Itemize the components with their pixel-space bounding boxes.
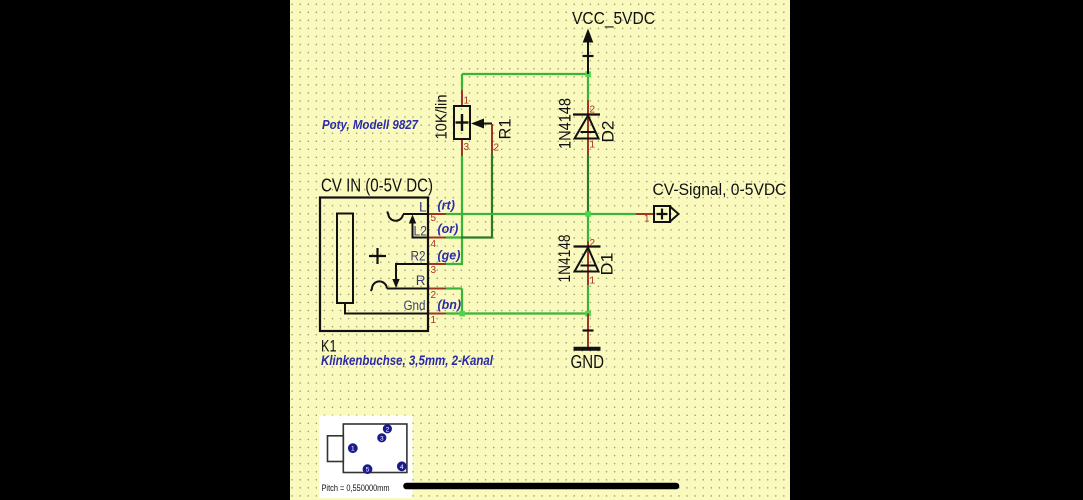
svg-text:Gnd: Gnd bbox=[404, 298, 426, 313]
power symbol VCC arrow bbox=[583, 29, 594, 43]
scale bar bbox=[407, 483, 677, 490]
wire: R2 row green bbox=[446, 263, 463, 265]
power symbol VCC plus bbox=[583, 55, 594, 57]
svg-text:VCC_5VDC: VCC_5VDC bbox=[572, 8, 655, 28]
wire: Gnd row horizontal bbox=[446, 312, 588, 314]
potentiometer R1 body bbox=[454, 106, 470, 139]
svg-text:D1: D1 bbox=[598, 253, 617, 276]
svg-text:Poty, Modell 9827: Poty, Modell 9827 bbox=[322, 117, 419, 132]
svg-text:4: 4 bbox=[400, 464, 404, 471]
svg-text:1: 1 bbox=[351, 446, 355, 453]
junction dot Gnd row right bbox=[585, 311, 591, 317]
wire: L row signal horizontal bbox=[446, 213, 636, 215]
svg-text:3: 3 bbox=[431, 265, 437, 276]
svg-text:10K/lin: 10K/lin bbox=[434, 95, 451, 140]
wire: VCC top horizontal bbox=[462, 73, 588, 75]
output terminal box bbox=[654, 206, 670, 222]
wire: L2 row green bbox=[446, 236, 463, 238]
pin stub R1 pin2 bbox=[491, 124, 493, 154]
pin stub K1 pin1 bbox=[428, 313, 446, 315]
footprint pad 4 bbox=[397, 461, 407, 471]
output terminal plus bbox=[657, 213, 668, 215]
svg-text:L: L bbox=[419, 200, 427, 215]
footprint pad 2 bbox=[383, 424, 392, 433]
svg-text:3: 3 bbox=[380, 435, 384, 442]
pin stub R1 pin3 bbox=[461, 139, 463, 156]
svg-text:Pitch = 0,550000mm: Pitch = 0,550000mm bbox=[322, 483, 390, 494]
svg-text:(rt): (rt) bbox=[438, 199, 455, 213]
wire: D1 to Gnd row green bbox=[587, 285, 589, 314]
pin stub D1 cathode bbox=[587, 241, 589, 247]
diode D1 cathode bar bbox=[574, 245, 601, 247]
footprint tab bbox=[328, 436, 344, 462]
K1 ring contact arc R bbox=[371, 281, 387, 291]
wire: R row drop to Gnd bbox=[461, 289, 463, 315]
diode D1 triangle bbox=[575, 248, 599, 272]
svg-text:1N4148: 1N4148 bbox=[556, 98, 575, 149]
svg-text:2: 2 bbox=[590, 238, 596, 249]
svg-text:CV-Signal, 0-5VDC: CV-Signal, 0-5VDC bbox=[653, 181, 787, 199]
svg-text:4: 4 bbox=[431, 239, 437, 250]
K1 contact line R2 bbox=[396, 264, 428, 281]
wire: R row green bbox=[446, 287, 462, 289]
svg-text:5: 5 bbox=[366, 467, 370, 474]
footprint pad 1 bbox=[348, 443, 358, 453]
svg-text:5: 5 bbox=[431, 213, 437, 224]
svg-text:2: 2 bbox=[431, 290, 437, 301]
svg-text:CV IN (0-5V DC): CV IN (0-5V DC) bbox=[321, 176, 433, 196]
junction dot Gnd row left bbox=[459, 311, 465, 317]
connector K1 jack body bbox=[337, 214, 353, 304]
diode D1 plus mark bbox=[581, 265, 596, 267]
svg-text:1: 1 bbox=[590, 276, 596, 287]
diode D2 cathode bar bbox=[573, 113, 600, 115]
footprint body bbox=[343, 424, 407, 473]
pin stub K1 pin3 bbox=[428, 263, 446, 265]
svg-text:R2: R2 bbox=[411, 249, 426, 264]
wire: signal to D1 green bbox=[587, 214, 589, 241]
junction dot signal bbox=[585, 211, 591, 217]
wire: VCC to D2 green bbox=[587, 74, 589, 100]
connector K1 plus mark bbox=[369, 255, 386, 257]
svg-text:2: 2 bbox=[386, 426, 390, 433]
svg-text:(ge): (ge) bbox=[438, 249, 461, 263]
pin stub D2 cathode bbox=[587, 100, 589, 115]
junction dot VCC bbox=[585, 71, 591, 77]
pin stub K1 pin2 bbox=[428, 288, 446, 290]
svg-text:3: 3 bbox=[464, 142, 470, 153]
ground symbol plus bbox=[583, 329, 594, 331]
svg-text:1: 1 bbox=[590, 140, 596, 151]
svg-text:(bn): (bn) bbox=[438, 298, 462, 312]
diode D2 plus mark bbox=[581, 131, 596, 133]
connector K1 outline bbox=[320, 198, 428, 332]
output terminal chevron bbox=[670, 207, 679, 222]
footprint pad 5 bbox=[363, 464, 373, 474]
diode D2 triangle bbox=[575, 116, 599, 139]
svg-text:1: 1 bbox=[464, 96, 470, 107]
ground symbol bar bbox=[574, 347, 601, 351]
wire: R1 pin1 riser bbox=[461, 74, 463, 90]
pin stub R1 pin1 bbox=[461, 90, 463, 106]
footprint pad 3 bbox=[377, 433, 386, 442]
pin stub output terminal bbox=[636, 213, 654, 215]
potentiometer R1 wiper arrow bbox=[471, 119, 484, 129]
wire: R1 pin3 to L2/R2 vertical bbox=[461, 156, 463, 264]
K1 contact line L bbox=[403, 213, 428, 215]
svg-text:R1: R1 bbox=[497, 119, 515, 140]
K1 tip contact arc L bbox=[387, 212, 403, 221]
svg-text:1: 1 bbox=[644, 214, 650, 225]
svg-text:1: 1 bbox=[431, 315, 437, 326]
svg-text:1N4148: 1N4148 bbox=[555, 235, 574, 283]
K1 contact line Gnd bbox=[345, 303, 428, 314]
potentiometer R1 cross bbox=[456, 121, 469, 123]
pin stub K1 pin4 bbox=[428, 237, 446, 239]
svg-text:Klinkenbuchse, 3,5mm, 2-Kanal: Klinkenbuchse, 3,5mm, 2-Kanal bbox=[321, 353, 493, 368]
K1 contact line L2 bbox=[412, 237, 429, 239]
svg-text:D2: D2 bbox=[599, 121, 618, 143]
pin stub D1 anode bbox=[587, 247, 589, 286]
pin stub K1 pin5 bbox=[428, 213, 446, 215]
wire GND symbol stem bbox=[587, 314, 589, 348]
wire: wiper net dark green horizontal bbox=[461, 236, 492, 238]
wire: D2 to signal dark green bbox=[587, 155, 589, 214]
svg-text:GND: GND bbox=[571, 351, 605, 372]
svg-text:2: 2 bbox=[494, 143, 500, 154]
footprint preview panel bbox=[319, 416, 413, 499]
K1 contact line R bbox=[387, 288, 428, 290]
svg-text:(or): (or) bbox=[438, 222, 459, 236]
pin stub D2 anode bbox=[587, 115, 589, 156]
svg-text:L2: L2 bbox=[414, 224, 428, 239]
K1 switch arrow to L bbox=[412, 221, 414, 238]
wire: wiper net dark green vertical bbox=[491, 154, 493, 239]
K1 switch arrow R2 to R bbox=[392, 279, 399, 288]
svg-text:R: R bbox=[416, 273, 426, 288]
svg-text:2: 2 bbox=[590, 105, 596, 116]
